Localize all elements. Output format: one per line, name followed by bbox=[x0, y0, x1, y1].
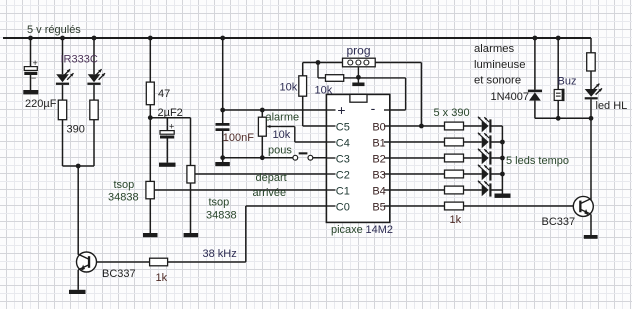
label 5 v régulés bbox=[27, 24, 81, 36]
label 10k prog bbox=[315, 85, 333, 97]
wire R to led HL bbox=[590, 71, 592, 89]
label BC337 right bbox=[542, 216, 576, 228]
node prog-B0 junction bbox=[419, 124, 424, 129]
wire resistor 2 down bbox=[93, 120, 95, 166]
transistor Q1 BC337 bbox=[77, 252, 97, 290]
LED tempo 5 bbox=[478, 181, 492, 197]
wire corner down to tsop2 bbox=[190, 118, 192, 166]
node R47 bottom junction bbox=[148, 115, 153, 120]
svg-text:390: 390 bbox=[67, 124, 85, 136]
connector prog bbox=[343, 58, 376, 67]
label tsop 1 bbox=[108, 179, 139, 204]
wire 1k to Q2 base bbox=[464, 205, 574, 207]
wire LED 4 to bus bbox=[492, 173, 503, 175]
svg-text:tsop: tsop bbox=[209, 197, 230, 209]
push button pous bbox=[293, 152, 313, 160]
wire B5 to resistor bbox=[390, 205, 445, 207]
svg-text:départ: départ bbox=[256, 172, 287, 184]
wire button to C3 pin bbox=[313, 157, 336, 159]
pin C4 bbox=[326, 137, 349, 149]
svg-text:5 v régulés: 5 v régulés bbox=[27, 24, 81, 36]
svg-text:47: 47 bbox=[158, 88, 170, 100]
wire resistor to LED 4 bbox=[464, 173, 482, 175]
label - pin bbox=[371, 100, 376, 116]
svg-text:BC337: BC337 bbox=[102, 268, 136, 280]
wire B2 to resistor bbox=[390, 157, 445, 159]
label prog bbox=[347, 44, 371, 58]
svg-text:B4: B4 bbox=[372, 185, 385, 197]
svg-text:BC337: BC337 bbox=[542, 216, 576, 228]
wire tsop2 to ground bbox=[190, 183, 192, 233]
wire 1k to corner bbox=[168, 261, 246, 263]
wire prog serial left bbox=[303, 62, 343, 64]
wire corner up to C0 row bbox=[245, 206, 247, 262]
resistor HL bbox=[587, 53, 596, 71]
resistor 390 row B3 bbox=[445, 170, 464, 178]
node 100nF ground junction bbox=[220, 155, 225, 160]
svg-text:14M2: 14M2 bbox=[366, 224, 394, 236]
svg-text:38 kHz: 38 kHz bbox=[203, 248, 237, 260]
pin C0 bbox=[326, 201, 349, 213]
wire rail to R47 bbox=[149, 38, 151, 82]
wire LED 1 to resistor bbox=[62, 85, 64, 100]
svg-text:C3: C3 bbox=[336, 153, 350, 165]
capacitor 220µF bbox=[24, 58, 37, 90]
node rail-R47 junction bbox=[148, 36, 153, 41]
svg-text:−: − bbox=[31, 73, 36, 83]
capacitor 2µF2 bbox=[160, 122, 174, 163]
IR receiver tsop1 34838 bbox=[146, 181, 154, 198]
resistor 47 bbox=[146, 82, 154, 105]
pin B5 bbox=[372, 201, 389, 213]
node HL bottom bbox=[589, 116, 594, 121]
resistor 390 row B0 bbox=[445, 122, 464, 130]
label 10k serial bbox=[280, 82, 298, 94]
node IR join bbox=[76, 164, 81, 169]
svg-text:et sonore: et sonore bbox=[474, 75, 521, 87]
svg-text:5 x 390: 5 x 390 bbox=[434, 107, 470, 119]
resistor 390 row B1 bbox=[445, 138, 464, 146]
wire resistor to LED 3 bbox=[464, 157, 482, 159]
pin C1 bbox=[326, 185, 349, 197]
node prog ground bbox=[356, 75, 361, 80]
ground tsop2 bbox=[184, 233, 199, 237]
wire resistor to LED 2 bbox=[464, 141, 482, 143]
svg-text:lumineuse: lumineuse bbox=[474, 59, 526, 71]
label 100nF bbox=[223, 132, 254, 144]
pin C5 bbox=[326, 121, 349, 133]
buzzer Buz bbox=[554, 89, 564, 119]
svg-text:+: + bbox=[169, 122, 174, 132]
wire rail to C 220uF bbox=[30, 38, 32, 67]
label 1k right bbox=[450, 214, 462, 226]
resistor 10k prog bbox=[326, 75, 344, 82]
svg-text:1k: 1k bbox=[450, 214, 462, 226]
ground prog bbox=[352, 83, 364, 87]
svg-text:pous: pous bbox=[268, 145, 292, 157]
wire B4 to resistor bbox=[390, 189, 445, 191]
label 390 bbox=[67, 124, 85, 136]
wire LED 2 to resistor bbox=[93, 85, 95, 100]
svg-text:IR333C: IR333C bbox=[61, 54, 98, 66]
svg-text:220µF: 220µF bbox=[25, 98, 57, 110]
LED IR333C #2 bbox=[87, 69, 105, 85]
wire rail down to V+ node bbox=[222, 38, 224, 110]
wire tsop1 output C1 row bbox=[154, 189, 335, 191]
wire alarm bottom bbox=[535, 117, 591, 119]
IC U1 picaxe 14M2 body bbox=[326, 94, 389, 222]
wire serial to R10k top bbox=[302, 63, 304, 76]
wire +5V power rail bbox=[3, 37, 591, 39]
svg-text:1k: 1k bbox=[156, 272, 168, 284]
label 10k pot bbox=[273, 129, 291, 141]
svg-text:100nF: 100nF bbox=[223, 132, 254, 144]
svg-text:10k: 10k bbox=[273, 129, 291, 141]
svg-text:34838: 34838 bbox=[108, 192, 139, 204]
pin + stub bbox=[326, 109, 335, 111]
pin B1 bbox=[372, 137, 389, 149]
pot wiper arrow bbox=[267, 125, 295, 142]
label led HL bbox=[596, 100, 628, 112]
label 38 kHz bbox=[203, 248, 237, 260]
wire junction down to R10k h bbox=[318, 63, 326, 78]
wire rail to 1N4007 bbox=[534, 38, 536, 90]
wire junction down to tsop1 bbox=[149, 118, 151, 182]
ground 100nF bbox=[215, 162, 230, 166]
wire resistor to LED 1 bbox=[464, 125, 482, 127]
svg-text:B3: B3 bbox=[372, 169, 385, 181]
pin C2 bbox=[326, 169, 349, 181]
pin - stub bbox=[384, 109, 390, 111]
resistor 1k (B5) bbox=[445, 202, 464, 210]
pin B3 bbox=[372, 169, 389, 181]
node rail-IRLED2 junction bbox=[92, 36, 97, 41]
resistor 390 #2 bbox=[90, 100, 98, 120]
label Buz bbox=[558, 76, 577, 88]
label 47 bbox=[158, 88, 170, 100]
node bus B1 bbox=[500, 140, 505, 145]
label départ bbox=[256, 172, 287, 184]
label alarme bbox=[266, 112, 300, 124]
svg-text:-: - bbox=[371, 100, 376, 116]
wire tsop2 output C2 row bbox=[195, 173, 336, 175]
svg-text:arrivée: arrivée bbox=[253, 187, 287, 199]
LED tempo 3 bbox=[478, 149, 492, 165]
node Buz bottom bbox=[556, 116, 561, 121]
label picaxe 14M2 bbox=[331, 224, 393, 236]
svg-text:C1: C1 bbox=[336, 185, 350, 197]
node rail-Buz junction bbox=[556, 36, 561, 41]
node serial 10k junction bbox=[316, 60, 321, 65]
svg-text:led HL: led HL bbox=[596, 100, 628, 112]
wire LED 1 to bus bbox=[492, 125, 503, 127]
wire B1 to resistor bbox=[390, 141, 445, 143]
svg-text:+: + bbox=[337, 102, 345, 118]
potentiometer alarme 10k bbox=[258, 117, 266, 136]
wire pot bottom bbox=[261, 136, 263, 158]
IR receiver tsop2 34838 bbox=[187, 166, 195, 184]
wire prog middle pin to ground bbox=[357, 67, 359, 83]
label IR333C bbox=[61, 54, 98, 66]
svg-text:Buz: Buz bbox=[558, 76, 577, 88]
wire prog right to B0 bbox=[375, 63, 421, 127]
label arrivée bbox=[253, 187, 287, 199]
resistor 1k (38kHz base) bbox=[150, 258, 168, 266]
svg-text:C0: C0 bbox=[336, 201, 350, 213]
node bus B2 bbox=[500, 156, 505, 161]
svg-text:picaxe: picaxe bbox=[331, 224, 363, 236]
pin B2 bbox=[372, 153, 389, 165]
wire LED 2 to bus bbox=[492, 141, 503, 143]
wire V+ to chip + pin bbox=[223, 109, 336, 111]
label 1k left bbox=[156, 272, 168, 284]
wire R47 to junction bbox=[149, 105, 151, 118]
wire wiper to C4 pin bbox=[295, 141, 336, 143]
label alarmes lumineuse et sonore bbox=[474, 43, 526, 87]
ground tsop1 bbox=[143, 233, 158, 237]
LED tempo 4 bbox=[478, 165, 492, 181]
wire join to Q1 collector bbox=[77, 166, 79, 255]
wire rail to IR LED 2 bbox=[93, 38, 95, 74]
wire R10k to minus pin bbox=[344, 78, 406, 110]
resistor 390 row B4 bbox=[445, 186, 464, 194]
node rail-100nF junction bbox=[220, 36, 225, 41]
LED HL bbox=[585, 84, 602, 119]
wire R10k to C5 pin bbox=[303, 96, 336, 126]
svg-text:alarmes: alarmes bbox=[474, 43, 515, 55]
node rail-220uF junction bbox=[28, 36, 33, 41]
wire LED 5 to bus bbox=[492, 189, 503, 191]
node pot top junction bbox=[260, 108, 265, 113]
svg-text:B5: B5 bbox=[372, 201, 385, 213]
wire junction to tsop2 corner bbox=[150, 117, 190, 119]
svg-text:5 leds tempo: 5 leds tempo bbox=[506, 155, 569, 167]
LED IR333C #1 bbox=[56, 69, 74, 85]
label BC337 left bbox=[102, 268, 136, 280]
svg-text:10k: 10k bbox=[280, 82, 298, 94]
wire LED cathode bus bbox=[501, 126, 503, 194]
svg-text:2µF2: 2µF2 bbox=[158, 107, 183, 119]
ground LED bus bbox=[495, 194, 511, 198]
ground Q1 emitter bbox=[69, 290, 86, 294]
LED tempo 2 bbox=[478, 133, 492, 149]
wire ground node to button bbox=[223, 157, 293, 159]
label + pin bbox=[337, 102, 345, 118]
svg-text:tsop: tsop bbox=[114, 179, 135, 191]
node bus B3 bbox=[500, 172, 505, 177]
wire to ground 100nF bbox=[222, 158, 224, 162]
wire resistor 1 down bbox=[62, 120, 64, 166]
wire C0 row bbox=[246, 205, 336, 207]
wire B0 to resistor bbox=[390, 125, 445, 127]
transistor Q2 BC337 bbox=[573, 196, 593, 235]
svg-text:1N4007: 1N4007 bbox=[491, 91, 530, 103]
capacitor 100nF bbox=[216, 110, 230, 158]
svg-text:C4: C4 bbox=[336, 137, 350, 149]
label 2µF2 bbox=[158, 107, 183, 119]
resistor 390 row B2 bbox=[445, 154, 464, 162]
resistor 10k serial bbox=[299, 76, 307, 96]
ground Q2 emitter bbox=[584, 235, 598, 239]
node rail-1N4007 junction bbox=[533, 36, 538, 41]
svg-text:B0: B0 bbox=[372, 121, 385, 133]
label 1N4007 bbox=[491, 91, 530, 103]
label pous bbox=[268, 145, 292, 157]
LED tempo 1 bbox=[478, 117, 492, 133]
svg-text:B1: B1 bbox=[372, 137, 385, 149]
diode 1N4007 bbox=[528, 90, 542, 119]
wire rail to Buz bbox=[557, 38, 559, 90]
node rail-IRLED1 junction bbox=[60, 36, 65, 41]
node pot bottom junction bbox=[260, 155, 265, 160]
ground 220uF bbox=[23, 90, 38, 94]
wire V+ to pot bbox=[261, 110, 263, 117]
wire rail corner to R HL bbox=[590, 38, 592, 53]
pin C3 bbox=[326, 153, 349, 165]
svg-text:alarme: alarme bbox=[266, 112, 300, 124]
node V+ 100nF junction bbox=[220, 108, 225, 113]
wire Q1 base to R 1k bbox=[97, 261, 150, 263]
svg-text:C5: C5 bbox=[336, 121, 350, 133]
label 220µF bbox=[25, 98, 57, 110]
label 5 x 390 bbox=[434, 107, 470, 119]
wire resistor to LED 5 bbox=[464, 189, 482, 191]
svg-text:prog: prog bbox=[347, 44, 371, 58]
wire alarm node to Q2 collector bbox=[590, 118, 592, 201]
label tsop 2 bbox=[206, 197, 237, 222]
resistor 390 #1 bbox=[58, 100, 66, 120]
svg-text:B2: B2 bbox=[372, 153, 385, 165]
svg-text:C2: C2 bbox=[336, 169, 350, 181]
wire IR branches join bbox=[63, 165, 95, 167]
wire junction to C 2uF2 bbox=[166, 118, 168, 131]
ground 2uF2 bbox=[159, 163, 176, 167]
pin B0 bbox=[372, 121, 389, 133]
wire LED 3 to bus bbox=[492, 157, 503, 159]
pin B4 bbox=[372, 185, 389, 197]
label 5 leds tempo bbox=[506, 155, 569, 167]
wire tsop1 to ground bbox=[149, 199, 151, 233]
svg-text:34838: 34838 bbox=[206, 210, 237, 222]
wire B3 to resistor bbox=[390, 173, 445, 175]
wire rail to IR LED 1 bbox=[62, 38, 64, 74]
